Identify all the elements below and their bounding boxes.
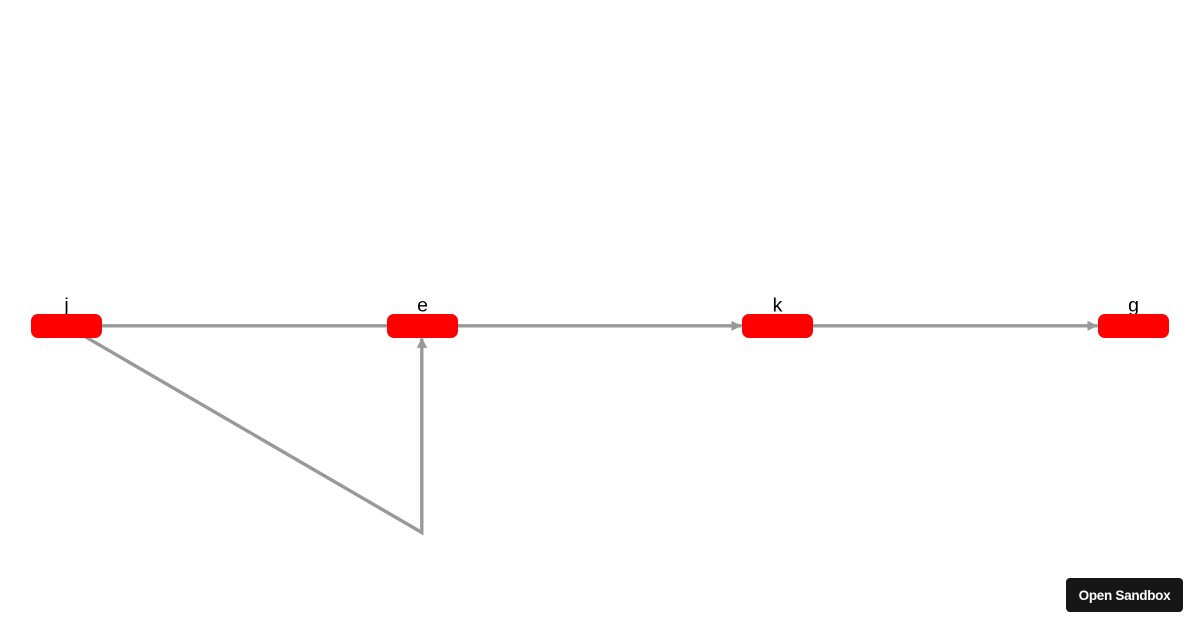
node e: [387, 314, 458, 338]
wire k to g (edge with arrow): [778, 324, 1098, 327]
arrowhead into g: [1088, 321, 1098, 331]
wire e to k (edge with arrow): [423, 324, 742, 327]
node j: [31, 314, 102, 338]
wire j down-right then up to e (two-segment edge): [67, 326, 422, 533]
arrowhead into k: [732, 321, 742, 331]
wire j to e (horizontal edge): [67, 324, 423, 327]
Open Sandbox button: [1066, 578, 1183, 612]
arrowhead into e bottom: [417, 338, 428, 348]
node k: [742, 314, 813, 338]
node g: [1098, 314, 1169, 338]
